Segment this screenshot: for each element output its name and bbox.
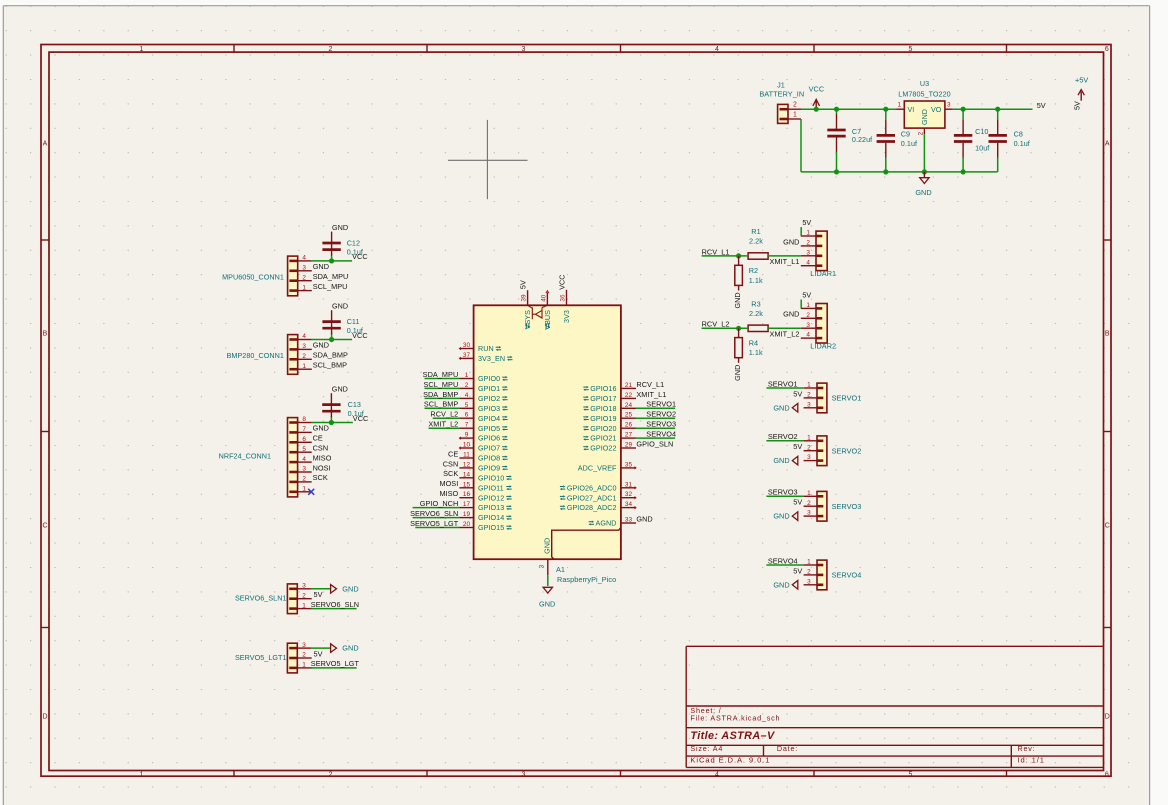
svg-text:1: 1 [465, 372, 469, 379]
svg-text:GPIO_SLN: GPIO_SLN [636, 439, 673, 448]
wire J1 pin1 down to ground rail [800, 119, 802, 172]
svg-text:VCC: VCC [352, 252, 368, 261]
capacitor C11 0.1uf with GND label [322, 302, 363, 340]
wire VCC (MPU6050 pin4) [312, 260, 352, 262]
power symbol +5V [1072, 76, 1088, 110]
svg-text:1: 1 [807, 490, 811, 497]
svg-text:RCV_L1: RCV_L1 [702, 247, 730, 256]
svg-text:5V: 5V [802, 291, 811, 300]
svg-text:4: 4 [465, 392, 469, 399]
svg-text:5: 5 [909, 46, 913, 53]
svg-text:35: 35 [625, 461, 633, 468]
pin 30 RUN (unconnected) left side [459, 342, 501, 353]
svg-text:GND: GND [332, 385, 348, 394]
svg-text:4: 4 [715, 46, 719, 53]
pin 5 GPIO3 (SCL_BMP) left side [424, 400, 508, 413]
svg-text:BMP280_CONN1: BMP280_CONN1 [227, 351, 284, 360]
svg-text:2: 2 [329, 771, 333, 778]
svg-text:SERVO3: SERVO3 [646, 420, 676, 429]
svg-text:XMIT_L1: XMIT_L1 [770, 257, 800, 266]
svg-text:2: 2 [807, 569, 811, 576]
junction C11 on VCC wire [329, 337, 334, 342]
svg-text:SDA_BMP: SDA_BMP [313, 351, 348, 360]
svg-text:C12: C12 [347, 238, 360, 247]
pin 14 GPIO10 (SCK) left side [443, 469, 512, 482]
svg-text:0.22uf: 0.22uf [852, 135, 872, 144]
net label GND below R4 [733, 365, 742, 381]
title block [686, 646, 1103, 767]
svg-text:KiCad E.D.A. 9.0.1: KiCad E.D.A. 9.0.1 [690, 756, 770, 765]
svg-text:AGND: AGND [596, 519, 617, 528]
svg-text:SERVO6_SLN1: SERVO6_SLN1 [235, 594, 287, 603]
svg-text:5V: 5V [1072, 101, 1081, 110]
svg-text:5V: 5V [793, 498, 802, 507]
svg-text:5V: 5V [1037, 101, 1046, 110]
svg-text:2: 2 [302, 274, 306, 281]
svg-text:1: 1 [140, 771, 144, 778]
svg-text:SCK: SCK [443, 469, 458, 478]
svg-text:8: 8 [302, 416, 306, 423]
svg-text:SERVO4: SERVO4 [768, 556, 798, 565]
pin 40 VBUS unconnected (top) [541, 291, 553, 330]
capacitor C7 0.22uf [827, 109, 872, 172]
svg-text:5V: 5V [793, 566, 802, 575]
svg-text:10uf: 10uf [975, 143, 989, 152]
svg-text:5V: 5V [314, 649, 323, 658]
svg-text:SERVO1: SERVO1 [646, 400, 676, 409]
svg-text:GPIO20: GPIO20 [590, 424, 616, 433]
svg-text:SERVO6_SLN: SERVO6_SLN [410, 509, 458, 518]
svg-text:GPIO27_ADC1: GPIO27_ADC1 [567, 493, 617, 502]
junction RCV_L1 / R2 [736, 253, 741, 258]
svg-text:A1: A1 [556, 565, 565, 574]
connector SERVO2 with net SERVO2, 5V and GND global label [766, 432, 861, 466]
resistor R2 1.1k [735, 256, 763, 291]
junction C12 on VCC wire [329, 258, 334, 263]
svg-text:SERVO5_LGT: SERVO5_LGT [311, 659, 360, 668]
svg-text:3: 3 [302, 583, 306, 590]
svg-text:21: 21 [625, 382, 633, 389]
connector SERVO5_LGT1 with GND global label and SERVO5_LGT net [235, 642, 360, 673]
svg-text:3: 3 [806, 249, 810, 256]
pin 4 GPIO2 (SDA_BMP) left side [423, 390, 508, 403]
svg-text:SDA_MPU: SDA_MPU [423, 370, 459, 379]
svg-text:2: 2 [807, 500, 811, 507]
svg-text:CSN: CSN [443, 459, 459, 468]
svg-text:GPIO2: GPIO2 [478, 394, 500, 403]
svg-text:GPIO11: GPIO11 [478, 483, 504, 492]
pin 21 GPIO16 (RCV_L1) right side [583, 380, 664, 393]
svg-text:2: 2 [302, 592, 306, 599]
svg-text:3: 3 [539, 564, 546, 568]
regulator U3 LM7805_TO220 [896, 79, 953, 136]
svg-text:GND: GND [539, 600, 555, 609]
pin 3 GND (bottom) with wire [539, 538, 552, 575]
svg-text:3: 3 [807, 510, 811, 517]
pin 31 GPIO26_ADC0 (unconnected) right side [560, 481, 636, 492]
svg-text:SERVO1: SERVO1 [768, 379, 798, 388]
svg-text:CE: CE [313, 434, 323, 443]
svg-text:6: 6 [1105, 46, 1109, 53]
junction 5V rail at C8 [995, 107, 1000, 112]
svg-text:SCL_MPU: SCL_MPU [423, 380, 458, 389]
svg-text:2: 2 [793, 101, 797, 108]
junction rail at C7 [834, 107, 839, 112]
svg-text:GPIO21: GPIO21 [590, 434, 616, 443]
svg-text:37: 37 [463, 352, 471, 359]
svg-text:GPIO17: GPIO17 [590, 394, 616, 403]
svg-text:SCL_MPU: SCL_MPU [313, 282, 348, 291]
svg-text:Id: 1/1: Id: 1/1 [1018, 756, 1045, 765]
net label VCC (NRF24) [353, 414, 369, 423]
svg-text:12: 12 [463, 461, 471, 468]
svg-text:GPIO4: GPIO4 [478, 414, 500, 423]
svg-text:GND: GND [313, 424, 329, 433]
svg-text:30: 30 [463, 342, 471, 349]
svg-text:MOSI: MOSI [439, 479, 458, 488]
svg-text:3: 3 [806, 322, 810, 329]
svg-text:J1: J1 [777, 80, 785, 89]
svg-text:SCL_BMP: SCL_BMP [424, 400, 458, 409]
pin 34 GPIO28_ADC2 (unconnected) right side [560, 501, 636, 512]
svg-text:3: 3 [807, 578, 811, 585]
svg-text:GND: GND [921, 109, 929, 125]
svg-text:BATTERY_IN: BATTERY_IN [759, 90, 804, 99]
svg-text:2: 2 [302, 353, 306, 360]
svg-text:5V: 5V [802, 218, 811, 227]
svg-text:C11: C11 [347, 317, 360, 326]
svg-text:1: 1 [302, 363, 306, 370]
svg-text:RUN: RUN [478, 344, 494, 353]
svg-text:SERVO4: SERVO4 [646, 430, 676, 439]
svg-text:2.2k: 2.2k [749, 237, 763, 246]
svg-text:XMIT_L2: XMIT_L2 [770, 330, 800, 339]
svg-text:SERVO2: SERVO2 [768, 432, 798, 441]
pin 35 ADC_VREF (unconnected) right side [578, 461, 636, 472]
svg-text:CE: CE [448, 449, 458, 458]
svg-text:Date:: Date: [777, 744, 798, 753]
sheet center marker [448, 120, 528, 199]
svg-text:GPIO_NCH: GPIO_NCH [420, 499, 459, 508]
svg-text:SERVO6_SLN: SERVO6_SLN [311, 600, 359, 609]
svg-text:20: 20 [463, 521, 471, 528]
capacitor C9 0.1uf [877, 109, 917, 172]
svg-text:NOSI: NOSI [313, 463, 331, 472]
svg-text:GPIO7: GPIO7 [478, 444, 500, 453]
svg-text:1: 1 [806, 302, 810, 309]
pin 16 GPIO12 (MISO) left side [439, 489, 511, 502]
svg-text:25: 25 [625, 412, 633, 419]
svg-text:5V: 5V [793, 442, 802, 451]
svg-text:R2: R2 [749, 266, 758, 275]
power symbol VCC [809, 85, 825, 109]
svg-text:GND: GND [783, 237, 799, 246]
pin 9 GPIO6 (unconnected) left side [459, 432, 507, 443]
svg-text:GPIO10: GPIO10 [478, 473, 504, 482]
svg-text:4: 4 [806, 332, 810, 339]
connector SERVO4 with net SERVO4, 5V and GND global label [766, 556, 861, 590]
capacitor C12 0.1uf with GND label [322, 223, 363, 261]
svg-text:NRF24_CONN1: NRF24_CONN1 [219, 452, 271, 461]
svg-text:3: 3 [522, 46, 526, 53]
svg-text:1: 1 [897, 101, 901, 108]
junction 5V rail at C10 [961, 107, 966, 112]
svg-text:GND: GND [332, 223, 348, 232]
svg-text:GPIO14: GPIO14 [478, 513, 504, 522]
svg-text:1: 1 [807, 434, 811, 441]
reference A1 RaspberryPi_Pico [556, 565, 616, 584]
wire R1 to LIDAR1 pin3 [768, 255, 801, 257]
pin 26 GPIO20 (SERVO3) right side [583, 420, 676, 433]
connector SERVO1 with net SERVO1, 5V and GND global label [766, 379, 861, 413]
svg-text:VCC: VCC [353, 414, 369, 423]
svg-text:C8: C8 [1014, 130, 1023, 139]
svg-text:3: 3 [807, 454, 811, 461]
resistor R3 2.2k [748, 299, 768, 331]
svg-text:5: 5 [909, 771, 913, 778]
svg-text:XMIT_L1: XMIT_L1 [636, 390, 666, 399]
svg-text:1.1k: 1.1k [749, 276, 763, 285]
pin 6 GPIO4 (RCV_L2) left side [430, 410, 507, 423]
svg-text:GPIO8: GPIO8 [478, 454, 500, 463]
svg-text:0.1uf: 0.1uf [1014, 139, 1030, 148]
ground symbol GND (pico) [539, 587, 555, 608]
svg-text:VCC: VCC [809, 85, 825, 94]
svg-text:GND: GND [313, 262, 329, 271]
resistor R1 2.2k [748, 227, 768, 259]
connector SERVO3 with net SERVO3, 5V and GND global label [766, 488, 861, 521]
pin 24 GPIO18 (SERVO1) right side [583, 400, 676, 413]
pin 22 GPIO17 (XMIT_L1) right side [583, 390, 666, 403]
svg-text:GND: GND [342, 644, 358, 653]
svg-text:XMIT_L2: XMIT_L2 [428, 420, 458, 429]
svg-text:C10: C10 [975, 127, 988, 136]
svg-text:GND: GND [733, 365, 742, 381]
svg-text:C: C [42, 523, 47, 530]
svg-text:GPIO16: GPIO16 [590, 384, 616, 393]
svg-text:MISO: MISO [313, 453, 332, 462]
net label GND below R2 [733, 292, 742, 308]
connector BMP280_CONN1 [227, 333, 348, 374]
svg-text:26: 26 [625, 422, 633, 429]
svg-text:3: 3 [302, 466, 306, 473]
pin 15 GPIO11 (MOSI) left side [439, 479, 511, 492]
wire U3 GND pin to ground rail [923, 134, 925, 172]
svg-text:B: B [43, 331, 48, 338]
svg-text:GPIO12: GPIO12 [478, 493, 504, 502]
svg-text:A: A [1105, 141, 1110, 148]
svg-text:6: 6 [1105, 771, 1109, 778]
svg-text:GND: GND [543, 538, 552, 554]
svg-text:GND: GND [915, 188, 931, 197]
svg-text:SERVO5_LGT: SERVO5_LGT [410, 519, 459, 528]
svg-text:SCL_BMP: SCL_BMP [313, 361, 347, 370]
svg-text:SDA_MPU: SDA_MPU [313, 272, 349, 281]
svg-text:GPIO6: GPIO6 [478, 434, 500, 443]
svg-text:1.1k: 1.1k [749, 348, 763, 357]
svg-text:GPIO15: GPIO15 [478, 523, 504, 532]
junction RCV_L2 / R4 [736, 326, 741, 331]
svg-text:10: 10 [463, 442, 471, 449]
svg-text:3: 3 [302, 343, 306, 350]
svg-text:R3: R3 [751, 299, 760, 308]
svg-text:RCV_L1: RCV_L1 [636, 380, 664, 389]
wire pico GND to ground symbol [547, 575, 549, 586]
svg-text:1: 1 [302, 284, 306, 291]
svg-text:GPIO19: GPIO19 [590, 414, 616, 423]
net label VCC (MPU6050) [352, 252, 368, 261]
svg-text:A: A [43, 141, 48, 148]
junction ground rail at U3 GND [922, 169, 927, 174]
svg-text:29: 29 [625, 442, 633, 449]
MCU A1 RaspberryPi_Pico body [474, 305, 621, 559]
svg-text:GND: GND [313, 341, 329, 350]
svg-text:GND: GND [783, 310, 799, 319]
svg-text:LM7805_TO220: LM7805_TO220 [898, 89, 950, 98]
svg-text:SERVO2: SERVO2 [832, 446, 862, 455]
svg-text:C9: C9 [901, 130, 910, 139]
pin 19 GPIO14 (SERVO6_SLN) left side [410, 509, 512, 522]
svg-text:1: 1 [302, 486, 306, 493]
net label 5V (power rail) [1037, 101, 1046, 110]
pin 36 3V3 with VCC label (top) [557, 274, 571, 322]
wire VCC (NRF24 pin8) [312, 422, 353, 424]
junction VCC at arrow [814, 107, 819, 112]
pin 29 GPIO22 (GPIO_SLN) right side [583, 439, 673, 452]
connector LIDAR1 [770, 218, 837, 278]
capacitor C8 0.1uf [989, 109, 1030, 172]
svg-text:2: 2 [465, 382, 469, 389]
svg-text:B: B [1105, 331, 1110, 338]
svg-text:SDA_BMP: SDA_BMP [423, 390, 458, 399]
svg-text:GPIO28_ADC2: GPIO28_ADC2 [567, 503, 617, 512]
svg-text:1: 1 [140, 46, 144, 53]
ground symbol GND (power rail) [915, 172, 931, 197]
svg-text:5: 5 [302, 446, 306, 453]
svg-text:3: 3 [807, 401, 811, 408]
svg-text:GPIO13: GPIO13 [478, 503, 504, 512]
svg-text:File: ASTRA.kicad_sch: File: ASTRA.kicad_sch [690, 714, 780, 723]
svg-text:Rev:: Rev: [1018, 744, 1036, 753]
svg-text:VCC: VCC [352, 331, 368, 340]
svg-text:MPU6050_CONN1: MPU6050_CONN1 [222, 273, 284, 282]
svg-text:6: 6 [302, 436, 306, 443]
svg-text:11: 11 [463, 452, 470, 459]
pin 2 GPIO1 (SCL_MPU) left side [423, 380, 507, 393]
svg-text:SERVO1: SERVO1 [832, 394, 862, 403]
connector SERVO6_SLN1 with GND global label and SERVO6_SLN net [235, 583, 359, 614]
svg-text:3V3_EN: 3V3_EN [478, 354, 505, 363]
svg-text:U3: U3 [920, 79, 929, 88]
svg-text:GPIO0: GPIO0 [478, 374, 500, 383]
svg-text:LIDAR2: LIDAR2 [810, 342, 836, 351]
net label VCC (BMP280) [352, 331, 368, 340]
connector NRF24_CONN1 [219, 416, 332, 497]
svg-text:4: 4 [302, 456, 306, 463]
svg-text:GND: GND [636, 514, 652, 523]
pin 10 GPIO7 (unconnected) left side [459, 442, 507, 453]
pin 12 GPIO9 (CSN) left side [443, 459, 508, 472]
svg-text:+5V: +5V [1075, 76, 1088, 85]
svg-text:2: 2 [329, 46, 333, 53]
svg-text:GPIO3: GPIO3 [478, 404, 500, 413]
svg-text:GND: GND [773, 403, 789, 412]
svg-text:5V: 5V [314, 590, 323, 599]
svg-text:9: 9 [465, 432, 469, 439]
svg-text:D: D [1105, 714, 1110, 721]
svg-text:SCK: SCK [313, 473, 328, 482]
svg-text:40: 40 [541, 294, 548, 302]
wire VCC (BMP280 pin4) [312, 339, 352, 341]
pin 33 AGND (GND) right side [589, 514, 653, 527]
pin 11 GPIO8 (CE) left side [448, 449, 508, 462]
svg-text:5V: 5V [518, 280, 527, 289]
svg-text:ADC_VREF: ADC_VREF [578, 464, 617, 473]
svg-text:GND: GND [342, 584, 358, 593]
svg-text:3: 3 [302, 265, 306, 272]
svg-text:31: 31 [625, 481, 633, 488]
svg-text:VBUS: VBUS [543, 310, 552, 330]
junction ground rail at C7 [834, 169, 839, 174]
svg-text:2: 2 [806, 312, 810, 319]
junction C13 on VCC wire [329, 420, 334, 425]
svg-text:D: D [42, 714, 47, 721]
svg-text:C: C [1105, 523, 1110, 530]
svg-text:SERVO3: SERVO3 [768, 488, 798, 497]
svg-text:4: 4 [302, 333, 306, 340]
svg-text:2: 2 [806, 240, 810, 247]
pin 17 GPIO13 (GPIO_NCH) left side [413, 499, 512, 512]
svg-text:1: 1 [793, 111, 797, 118]
svg-text:15: 15 [463, 481, 471, 488]
svg-text:24: 24 [625, 402, 633, 409]
svg-text:VO: VO [931, 106, 942, 114]
junction rail at C9 [883, 107, 888, 112]
svg-text:2.2k: 2.2k [749, 309, 763, 318]
svg-text:GPIO1: GPIO1 [478, 384, 500, 393]
svg-text:3V3: 3V3 [562, 310, 571, 323]
svg-text:3: 3 [302, 642, 306, 649]
svg-text:1: 1 [806, 230, 810, 237]
svg-text:Title: ASTRA–V: Title: ASTRA–V [690, 730, 775, 742]
capacitor C10 10uf [954, 109, 989, 172]
pin 32 GPIO27_ADC1 (unconnected) right side [560, 491, 636, 502]
svg-text:GPIO9: GPIO9 [478, 464, 500, 473]
pin 20 GPIO15 (SERVO5_LGT) left side [410, 519, 512, 532]
svg-text:7: 7 [465, 422, 469, 429]
pin 25 GPIO19 (SERVO2) right side [583, 410, 676, 423]
svg-text:RCV_L2: RCV_L2 [702, 320, 730, 329]
svg-text:GND: GND [773, 512, 789, 521]
connector MPU6050_CONN1 [222, 255, 348, 296]
svg-text:2: 2 [807, 392, 811, 399]
svg-text:1: 1 [302, 602, 306, 609]
svg-text:4: 4 [302, 255, 306, 262]
resistor R4 1.1k [735, 328, 763, 363]
svg-text:6: 6 [465, 412, 469, 419]
svg-text:14: 14 [463, 471, 471, 478]
svg-text:17: 17 [463, 501, 471, 508]
svg-text:GND: GND [773, 580, 789, 589]
svg-text:GND: GND [332, 302, 348, 311]
pin 7 GPIO5 (XMIT_L2) left side [428, 420, 507, 433]
svg-text:R1: R1 [751, 227, 760, 236]
svg-text:VI: VI [908, 106, 915, 114]
junction ground rail at C9 [883, 169, 888, 174]
net label RCV_L2 with wire [702, 320, 749, 329]
svg-text:32: 32 [625, 491, 633, 498]
pin 37 3V3_EN (unconnected) left side [459, 352, 512, 363]
